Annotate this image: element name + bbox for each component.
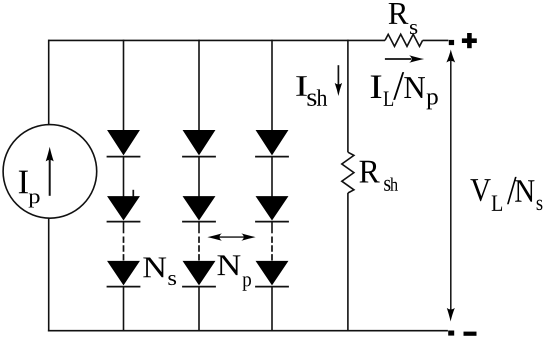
- diode D3c: [256, 261, 287, 284]
- diode D1b: [108, 197, 139, 220]
- wire column3 bottom: [271, 287, 273, 331]
- resistor R2 Rsh zigzag: [342, 152, 354, 193]
- wire column1 bottom: [123, 287, 125, 331]
- current arrow IL/Np: [385, 55, 424, 63]
- wire bottom rail: [48, 330, 448, 332]
- shunt branch: [342, 40, 354, 331]
- wire column1 mid1: [123, 157, 125, 197]
- wire column2 bottom: [198, 287, 200, 331]
- label Ns: [143, 257, 176, 285]
- diode D1a: [108, 130, 139, 154]
- minus sign: [464, 332, 477, 336]
- diode column D1 (x=123.5): [107, 40, 141, 331]
- label Ip: [19, 171, 40, 208]
- wire column1 top: [123, 40, 125, 131]
- label Rs: [389, 3, 418, 34]
- diode D2b: [183, 197, 214, 220]
- wire column2 stub: [198, 222, 200, 234]
- diode D2c: [183, 261, 214, 284]
- current source U1 circle: [3, 125, 97, 219]
- wire column2 mid1: [198, 157, 200, 197]
- diode D3b: [256, 197, 287, 220]
- wire column3 top: [271, 40, 273, 131]
- wire left rail upper: [48, 40, 50, 125]
- terminal node plus square: [449, 40, 454, 45]
- wire column2 dashed: [198, 237, 200, 262]
- diode D2a: [183, 130, 214, 154]
- wire shunt top: [347, 40, 349, 153]
- wire top rail right segment (after Rs): [423, 39, 449, 41]
- wire column2 top: [198, 40, 200, 131]
- resistor R1 Rs zigzag: [385, 34, 423, 46]
- current source arrow: [46, 147, 54, 196]
- label Np: [217, 255, 251, 290]
- terminal node minus square: [448, 331, 454, 336]
- wire column1 dashed: [123, 237, 125, 262]
- voltage arrow VL/Ns: [446, 50, 455, 322]
- diode D3a: [256, 130, 287, 154]
- label Rsh: [360, 161, 398, 191]
- tick mark: [132, 190, 134, 197]
- diode D1c: [108, 261, 139, 284]
- label IL/Np: [371, 72, 438, 109]
- wire column3 stub: [271, 222, 273, 234]
- wire left rail lower: [48, 218, 50, 332]
- label Ish: [296, 76, 327, 106]
- wire column3 mid1: [271, 157, 273, 197]
- wire top rail: [49, 39, 385, 41]
- current arrow Ish: [335, 65, 342, 96]
- wire column3 dashed: [271, 237, 273, 262]
- label VL/Ns: [470, 177, 542, 211]
- plus sign: [462, 33, 477, 48]
- wire shunt bottom: [347, 193, 349, 331]
- wire column1 stub: [123, 222, 125, 234]
- diode column D2 (x=199): [182, 40, 216, 331]
- double arrow Np spacing: [207, 233, 255, 240]
- diode column D3 (x=272): [255, 40, 289, 331]
